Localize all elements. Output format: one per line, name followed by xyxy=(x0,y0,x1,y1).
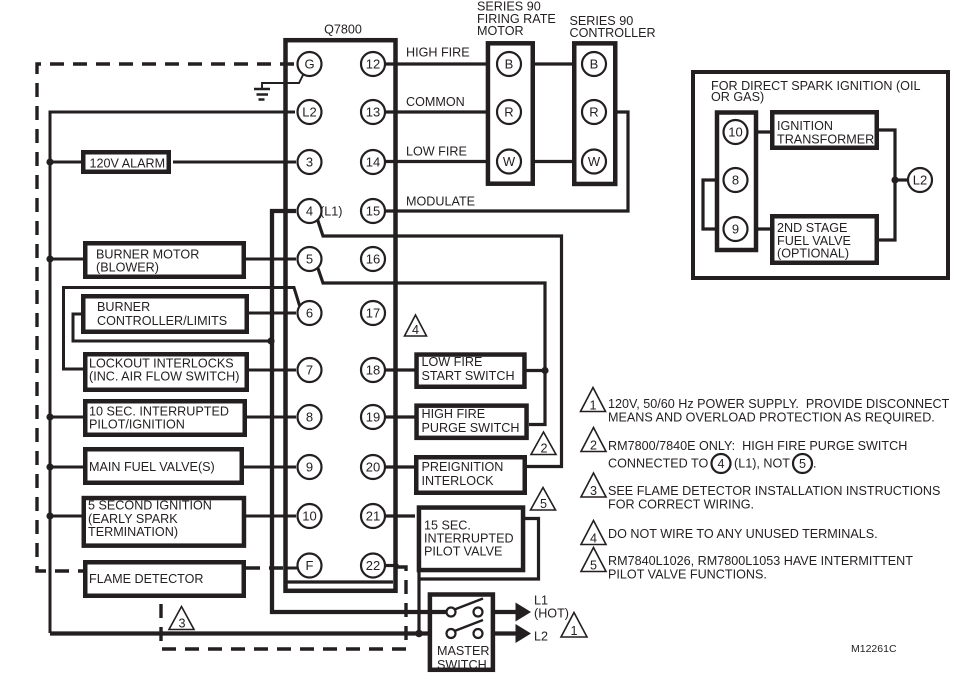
svg-text:B: B xyxy=(590,57,599,72)
svg-text:120V, 50/60 Hz POWER SUPPLY.: 120V, 50/60 Hz POWER SUPPLY. PROVIDE DIS… xyxy=(608,397,950,411)
svg-text:LOCKOUT INTERLOCKS: LOCKOUT INTERLOCKS xyxy=(89,357,234,371)
svg-text:L2: L2 xyxy=(302,105,316,120)
svg-text:10: 10 xyxy=(728,125,742,140)
svg-text:SWITCH: SWITCH xyxy=(437,658,487,672)
svg-text:RM7840L1026, RM7800L1053 HAVE: RM7840L1026, RM7800L1053 HAVE INTERMITTE… xyxy=(608,554,913,568)
svg-text:PURGE SWITCH: PURGE SWITCH xyxy=(422,421,520,435)
svg-text:HIGH FIRE: HIGH FIRE xyxy=(422,407,486,421)
svg-text:OR GAS): OR GAS) xyxy=(711,90,764,104)
svg-text:4: 4 xyxy=(412,323,419,337)
svg-text:L2: L2 xyxy=(913,173,927,188)
svg-text:HIGH FIRE: HIGH FIRE xyxy=(406,46,470,60)
svg-text:(L1), NOT: (L1), NOT xyxy=(734,457,790,471)
svg-text:6: 6 xyxy=(306,306,313,321)
svg-text:(INC. AIR FLOW SWITCH): (INC. AIR FLOW SWITCH) xyxy=(89,370,239,384)
svg-text:G: G xyxy=(304,57,314,72)
svg-text:L1: L1 xyxy=(534,594,548,608)
svg-text:16: 16 xyxy=(366,252,380,267)
svg-text:DO NOT WIRE TO ANY UNUSED TERM: DO NOT WIRE TO ANY UNUSED TERMINALS. xyxy=(608,527,878,541)
svg-text:INTERLOCK: INTERLOCK xyxy=(422,474,495,488)
svg-text:MOTOR: MOTOR xyxy=(477,24,524,38)
svg-text:120V ALARM: 120V ALARM xyxy=(90,157,166,171)
svg-text:(L1): (L1) xyxy=(320,205,342,219)
svg-text:R: R xyxy=(589,105,598,120)
svg-text:MODULATE: MODULATE xyxy=(406,195,475,209)
svg-text:9: 9 xyxy=(306,460,313,475)
svg-text:5: 5 xyxy=(590,559,597,573)
svg-text:4: 4 xyxy=(590,532,597,546)
svg-text:3: 3 xyxy=(306,155,313,170)
svg-text:2ND STAGE: 2ND STAGE xyxy=(777,221,847,235)
svg-text:CONNECTED TO: CONNECTED TO xyxy=(608,457,708,471)
svg-text:IGNITION: IGNITION xyxy=(777,119,833,133)
svg-text:8: 8 xyxy=(732,173,739,188)
svg-text:15 SEC.: 15 SEC. xyxy=(424,519,471,533)
svg-text:1: 1 xyxy=(589,399,596,413)
svg-text:5: 5 xyxy=(306,252,313,267)
svg-text:RM7800/7840E ONLY: HIGH FIRE: RM7800/7840E ONLY: HIGH FIRE PURGE SWITC… xyxy=(608,439,907,453)
svg-text:MASTER: MASTER xyxy=(437,644,489,658)
svg-text:FOR CORRECT WIRING.: FOR CORRECT WIRING. xyxy=(608,498,754,512)
svg-text:1: 1 xyxy=(570,624,577,638)
svg-text:W: W xyxy=(588,154,601,169)
svg-text:TRANSFORMER: TRANSFORMER xyxy=(777,133,874,147)
svg-text:19: 19 xyxy=(366,410,380,425)
svg-text:LOW FIRE: LOW FIRE xyxy=(422,355,483,369)
svg-text:5: 5 xyxy=(540,497,547,511)
svg-text:8: 8 xyxy=(306,410,313,425)
svg-text:R: R xyxy=(504,105,513,120)
svg-text:2: 2 xyxy=(590,439,597,453)
svg-text:BURNER: BURNER xyxy=(97,300,150,314)
svg-text:13: 13 xyxy=(366,105,380,120)
svg-text:5 SECOND IGNITION: 5 SECOND IGNITION xyxy=(88,499,212,513)
svg-text:TERMINATION): TERMINATION) xyxy=(88,525,178,539)
svg-text:W: W xyxy=(503,154,516,169)
svg-text:17: 17 xyxy=(366,306,380,321)
svg-text:22: 22 xyxy=(366,558,380,573)
svg-text:START SWITCH: START SWITCH xyxy=(422,369,515,383)
svg-text:(BLOWER): (BLOWER) xyxy=(96,261,159,275)
svg-text:FLAME DETECTOR: FLAME DETECTOR xyxy=(89,572,204,586)
svg-text:21: 21 xyxy=(366,509,380,524)
svg-text:MEANS AND OVERLOAD PROTECTION: MEANS AND OVERLOAD PROTECTION AS REQUIRE… xyxy=(608,411,935,425)
svg-text:(OPTIONAL): (OPTIONAL) xyxy=(777,247,849,261)
svg-text:4: 4 xyxy=(306,204,313,219)
svg-text:18: 18 xyxy=(366,363,380,378)
svg-text:10: 10 xyxy=(302,509,316,524)
svg-text:7: 7 xyxy=(306,363,313,378)
svg-text:PILOT/IGNITION: PILOT/IGNITION xyxy=(89,418,185,432)
svg-text:20: 20 xyxy=(366,460,380,475)
svg-text:9: 9 xyxy=(732,222,739,237)
svg-text:15: 15 xyxy=(366,204,380,219)
svg-text:PREIGNITION: PREIGNITION xyxy=(422,460,504,474)
svg-text:3: 3 xyxy=(590,484,597,498)
svg-text:CONTROLLER/LIMITS: CONTROLLER/LIMITS xyxy=(97,314,227,328)
svg-text:5: 5 xyxy=(799,457,806,471)
svg-text:3: 3 xyxy=(178,617,185,631)
svg-text:L2: L2 xyxy=(534,630,548,644)
svg-text:10 SEC. INTERRUPTED: 10 SEC. INTERRUPTED xyxy=(89,405,229,419)
svg-text:12: 12 xyxy=(366,57,380,72)
svg-text:BURNER MOTOR: BURNER MOTOR xyxy=(96,248,199,262)
svg-text:Q7800: Q7800 xyxy=(324,23,362,37)
svg-text:.: . xyxy=(813,457,817,471)
svg-text:SEE FLAME DETECTOR INSTALLATIO: SEE FLAME DETECTOR INSTALLATION INSTRUCT… xyxy=(608,484,940,498)
svg-text:(HOT): (HOT) xyxy=(534,607,569,621)
svg-text:PILOT VALVE FUNCTIONS.: PILOT VALVE FUNCTIONS. xyxy=(608,568,767,582)
svg-text:MAIN FUEL VALVE(S): MAIN FUEL VALVE(S) xyxy=(89,460,215,474)
svg-text:2: 2 xyxy=(540,442,547,456)
svg-text:4: 4 xyxy=(717,457,724,471)
svg-text:M12261C: M12261C xyxy=(851,643,897,655)
svg-text:B: B xyxy=(505,57,514,72)
svg-text:CONTROLLER: CONTROLLER xyxy=(570,26,656,40)
svg-text:PILOT VALVE: PILOT VALVE xyxy=(424,545,502,559)
svg-text:(EARLY SPARK: (EARLY SPARK xyxy=(88,512,178,526)
svg-text:INTERRUPTED: INTERRUPTED xyxy=(424,532,514,546)
svg-text:LOW FIRE: LOW FIRE xyxy=(406,145,467,159)
svg-text:F: F xyxy=(306,558,314,573)
svg-text:14: 14 xyxy=(366,155,380,170)
svg-text:COMMON: COMMON xyxy=(406,95,465,109)
